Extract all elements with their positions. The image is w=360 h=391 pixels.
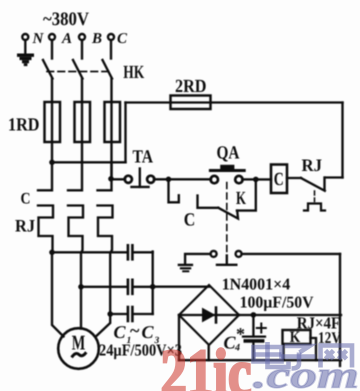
svg-text:M: M bbox=[72, 331, 86, 355]
contact C main pole A bbox=[38, 162, 52, 190]
wire N down bbox=[24, 41, 26, 54]
svg-text:100µF/50V: 100µF/50V bbox=[240, 293, 314, 312]
capacitor C1 bbox=[127, 245, 130, 259]
capacitor C2 bbox=[127, 280, 130, 294]
svg-text:N: N bbox=[32, 31, 45, 47]
motor M bbox=[58, 328, 99, 369]
svg-text:~: ~ bbox=[130, 321, 140, 341]
svg-text:A: A bbox=[61, 31, 72, 47]
terminal N bbox=[22, 34, 28, 40]
capacitor C4 electrolytic bbox=[252, 315, 254, 336]
node on phase A (junction dot) bbox=[49, 160, 55, 166]
svg-text:TA: TA bbox=[133, 148, 154, 168]
svg-text:2RD: 2RD bbox=[175, 77, 207, 97]
wire K coil left down bbox=[282, 344, 284, 360]
node on phase C (junction dot) bbox=[108, 176, 114, 182]
node phase B / cap row 2 bbox=[78, 284, 84, 290]
contact C main pole B bbox=[68, 162, 82, 190]
contact C main pole C bbox=[98, 162, 112, 190]
contact C (self hold) bbox=[169, 182, 179, 202]
wire cap row 1 bbox=[52, 251, 126, 253]
svg-text:HK: HK bbox=[123, 63, 144, 83]
wire C coil left bbox=[256, 178, 271, 180]
svg-text:1N4001×4: 1N4001×4 bbox=[222, 274, 291, 293]
wire cap bus bbox=[152, 252, 154, 314]
wire K coil right bbox=[311, 338, 317, 360]
terminal A bbox=[49, 34, 55, 40]
diode (in bridge) bbox=[202, 308, 216, 323]
HK mechanical link (dashed) bbox=[47, 71, 113, 73]
watermark char 子 bbox=[281, 346, 316, 369]
switch HK pole C bbox=[110, 41, 112, 59]
svg-text:QA: QA bbox=[217, 144, 241, 164]
wire to 2RD bbox=[126, 101, 343, 103]
node left of QA (junction dot) bbox=[166, 177, 172, 183]
node phase A / cap row 1 bbox=[49, 250, 55, 256]
svg-text:1RD: 1RD bbox=[8, 116, 40, 136]
wire junction A to riser bbox=[52, 161, 126, 163]
svg-text:C: C bbox=[21, 191, 31, 208]
wire cap row 2 bbox=[81, 286, 126, 288]
svg-text:K: K bbox=[290, 329, 301, 346]
fuse 2RD bbox=[171, 96, 211, 110]
node phase C / cap row 3 bbox=[107, 311, 113, 317]
fuse 1RD pole A bbox=[45, 102, 61, 142]
svg-text:B: B bbox=[91, 31, 102, 47]
bridge rectifier 1N4001x4 bbox=[179, 285, 239, 345]
svg-text:C: C bbox=[274, 170, 284, 190]
terminal C bbox=[108, 34, 114, 40]
wire bottom rail bbox=[179, 359, 341, 361]
wire right rail top bbox=[341, 103, 343, 178]
wire contact left to ground bbox=[185, 254, 210, 264]
wire motor lead B bbox=[80, 287, 82, 329]
watermark char 网 bbox=[321, 346, 353, 368]
ground (control) bbox=[179, 264, 192, 266]
wire bridge bottom corner down bbox=[208, 345, 210, 360]
svg-text:RJ: RJ bbox=[302, 155, 323, 175]
contact RJ (NC, overload relay) bbox=[323, 178, 325, 190]
RJ latch bracket bbox=[304, 204, 325, 211]
wire bridge + output bbox=[239, 314, 341, 316]
wire TA to node bbox=[154, 178, 211, 180]
wire riser up bbox=[124, 103, 126, 163]
svg-text:C: C bbox=[142, 322, 155, 342]
wire right rail lower bbox=[339, 254, 341, 366]
button QA (start) bbox=[211, 176, 218, 183]
coil C (contactor) bbox=[271, 165, 287, 194]
wire motor lead A bbox=[52, 252, 64, 336]
capacitor C3 bbox=[127, 307, 130, 321]
wire motor lead C bbox=[96, 314, 111, 337]
svg-text:C: C bbox=[114, 322, 127, 342]
svg-text:~380V: ~380V bbox=[43, 9, 89, 30]
svg-text:21ic: 21ic bbox=[161, 337, 252, 391]
contact QA lower (linked) bbox=[211, 251, 217, 257]
RJ reset latch (dashed) bbox=[314, 191, 316, 202]
button TA (stop) bbox=[111, 178, 125, 180]
fuse 1RD pole C bbox=[105, 102, 121, 142]
fuse 1RD pole B bbox=[75, 102, 91, 142]
node cap bus (junction dot) bbox=[150, 284, 156, 290]
svg-text:C: C bbox=[184, 211, 196, 231]
svg-text:RJ: RJ bbox=[15, 216, 35, 236]
label + bbox=[257, 324, 266, 333]
wire contact right to rail bbox=[242, 253, 340, 255]
svg-text:.com: .com bbox=[253, 355, 359, 391]
watermark dianzi wang (blue): char 电 bbox=[254, 342, 289, 367]
svg-text:C: C bbox=[117, 31, 128, 47]
contact K bbox=[218, 208, 238, 219]
svg-text:K: K bbox=[236, 189, 246, 209]
terminal B bbox=[79, 34, 85, 40]
node + output (junction dot) bbox=[251, 312, 257, 318]
switch HK pole B bbox=[81, 41, 83, 59]
wire QA right bbox=[242, 178, 253, 180]
relay coil K bbox=[283, 330, 311, 344]
wire bridge left corner down bbox=[178, 315, 180, 360]
node right of QA (junction dot) bbox=[253, 177, 259, 183]
wire cap row 3 bbox=[110, 313, 126, 315]
switch HK pole A bbox=[51, 41, 53, 59]
wire bus to bridge bbox=[153, 286, 209, 288]
QA mechanical link (dashed) bbox=[226, 183, 228, 263]
ground (earth at N) bbox=[17, 54, 34, 67]
